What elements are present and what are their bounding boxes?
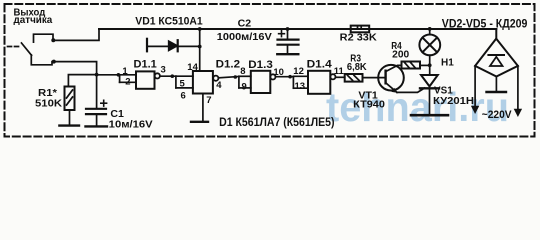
pin 7 wire	[202, 94, 204, 121]
svg-text:13: 13	[295, 81, 306, 92]
capacitor C2	[286, 27, 290, 31]
AC terminal right arrow	[517, 66, 519, 110]
svg-text:VD1 КС510А1: VD1 КС510А1	[135, 16, 202, 28]
wire (D1.3 out to D1.4)	[276, 76, 294, 78]
wire (bottom contact leg)	[31, 55, 52, 65]
node bottom contact	[52, 60, 56, 64]
wire (VD1 branch)	[148, 45, 200, 47]
collector wire	[386, 65, 402, 71]
wire (N1 to R1)	[68, 75, 96, 87]
svg-text:14: 14	[187, 62, 198, 73]
svg-text:H1: H1	[441, 57, 454, 68]
label VD1 КС510А1	[135, 16, 202, 28]
svg-text:11: 11	[334, 66, 345, 77]
logic gate D1.4	[288, 75, 292, 79]
ground bar bridge minus	[487, 91, 507, 93]
AC terminal left arrow	[474, 66, 476, 107]
watermark tehnari.ru	[326, 84, 509, 130]
resistor R4	[402, 62, 421, 69]
svg-text:10м/16V: 10м/16V	[109, 120, 153, 131]
svg-text:200: 200	[392, 49, 409, 60]
wire (D1.1 out to D1.2)	[160, 75, 176, 77]
svg-text:C1: C1	[110, 109, 124, 120]
svg-text:9: 9	[242, 82, 247, 93]
pin 14 wire	[199, 29, 201, 71]
logic gate D1.2	[171, 74, 175, 78]
wire (top contact to riser)	[53, 29, 99, 40]
label C2 1000м/16V	[217, 18, 272, 43]
zener VD1 terminal bar	[146, 39, 148, 52]
svg-text:D1.2: D1.2	[216, 59, 241, 71]
svg-text:2: 2	[125, 77, 130, 88]
svg-text:1: 1	[122, 66, 128, 77]
svg-text:1000м/16V: 1000м/16V	[217, 31, 272, 43]
thyristor VS1	[421, 75, 438, 86]
emitter wire with arrow	[386, 83, 397, 93]
logic gate D1.3	[234, 75, 238, 79]
switch SA (sensor contacts) actuator dashes	[8, 46, 22, 48]
resistor R2	[351, 26, 370, 33]
svg-text:D1 К561ЛА7 (К561ЛЕ5): D1 К561ЛА7 (К561ЛЕ5)	[219, 117, 335, 129]
svg-text:датчика: датчика	[14, 14, 53, 26]
wire (D1.4 out to R3)	[336, 76, 345, 78]
wire (R4 to anode node)	[420, 64, 430, 66]
svg-text:~220V: ~220V	[482, 109, 512, 121]
label D1 К561ЛА7 (К561ЛЕ5)	[219, 117, 335, 129]
node top contact	[51, 38, 55, 42]
svg-text:6: 6	[181, 91, 186, 102]
node VD1/pin14 junction	[198, 45, 202, 49]
transistor VT1	[378, 65, 404, 91]
svg-text:D1.1: D1.1	[134, 59, 157, 71]
svg-text:7: 7	[206, 95, 211, 106]
svg-text:5: 5	[180, 79, 186, 90]
ground bar under C2	[277, 53, 298, 55]
resistor R3	[345, 74, 363, 82]
svg-text:8: 8	[240, 66, 245, 77]
label C1 10м/16V	[109, 109, 153, 130]
svg-text:КТ940: КТ940	[353, 100, 385, 111]
wire (bottom contact to node N1)	[54, 62, 97, 75]
wire (N1 to D1.1 inputs)	[97, 74, 120, 76]
wire (D1.2 out to D1.3)	[218, 77, 239, 78]
ground bar pin 7	[191, 121, 208, 123]
diode bridge VD2-VD5	[495, 29, 497, 39]
logic gate D1.1	[119, 75, 121, 83]
svg-text:6,8K: 6,8K	[347, 62, 368, 73]
ground bar under R1	[59, 124, 79, 126]
svg-text:D1.3: D1.3	[248, 59, 272, 71]
svg-text:510K: 510K	[35, 98, 63, 109]
svg-text:VD2-VD5 - КД209: VD2-VD5 - КД209	[442, 19, 528, 31]
node N1	[95, 73, 99, 77]
wire (+9V top rail)	[99, 28, 496, 30]
switch bracket to top contact	[34, 34, 54, 42]
svg-text:12: 12	[293, 66, 304, 77]
wire (N1 to C1)	[96, 75, 98, 108]
svg-text:4: 4	[216, 80, 222, 91]
wire (bridge minus)	[495, 77, 497, 91]
zener diode VD1	[169, 41, 178, 50]
switch blade	[22, 43, 32, 55]
svg-text:C2: C2	[238, 18, 252, 30]
svg-text:VS1: VS1	[434, 85, 453, 96]
svg-text:КУ201Н: КУ201Н	[433, 96, 474, 107]
wire (R3 to base)	[363, 77, 386, 79]
enclosure boundary (dashed frame)	[5, 4, 535, 137]
svg-text:10: 10	[273, 67, 284, 78]
label R1* 510K	[35, 88, 63, 109]
svg-text:3: 3	[161, 65, 166, 76]
common bar under VS1	[411, 114, 448, 117]
svg-text:D1.4: D1.4	[307, 59, 333, 71]
svg-text:R2 33K: R2 33K	[340, 32, 378, 44]
svg-text:R1*: R1*	[38, 88, 57, 99]
label Выход датчика	[14, 6, 53, 26]
lamp H1	[428, 27, 432, 31]
resistor R1	[65, 87, 75, 111]
capacitor C1	[86, 108, 106, 110]
ground bar under C1	[86, 125, 108, 127]
